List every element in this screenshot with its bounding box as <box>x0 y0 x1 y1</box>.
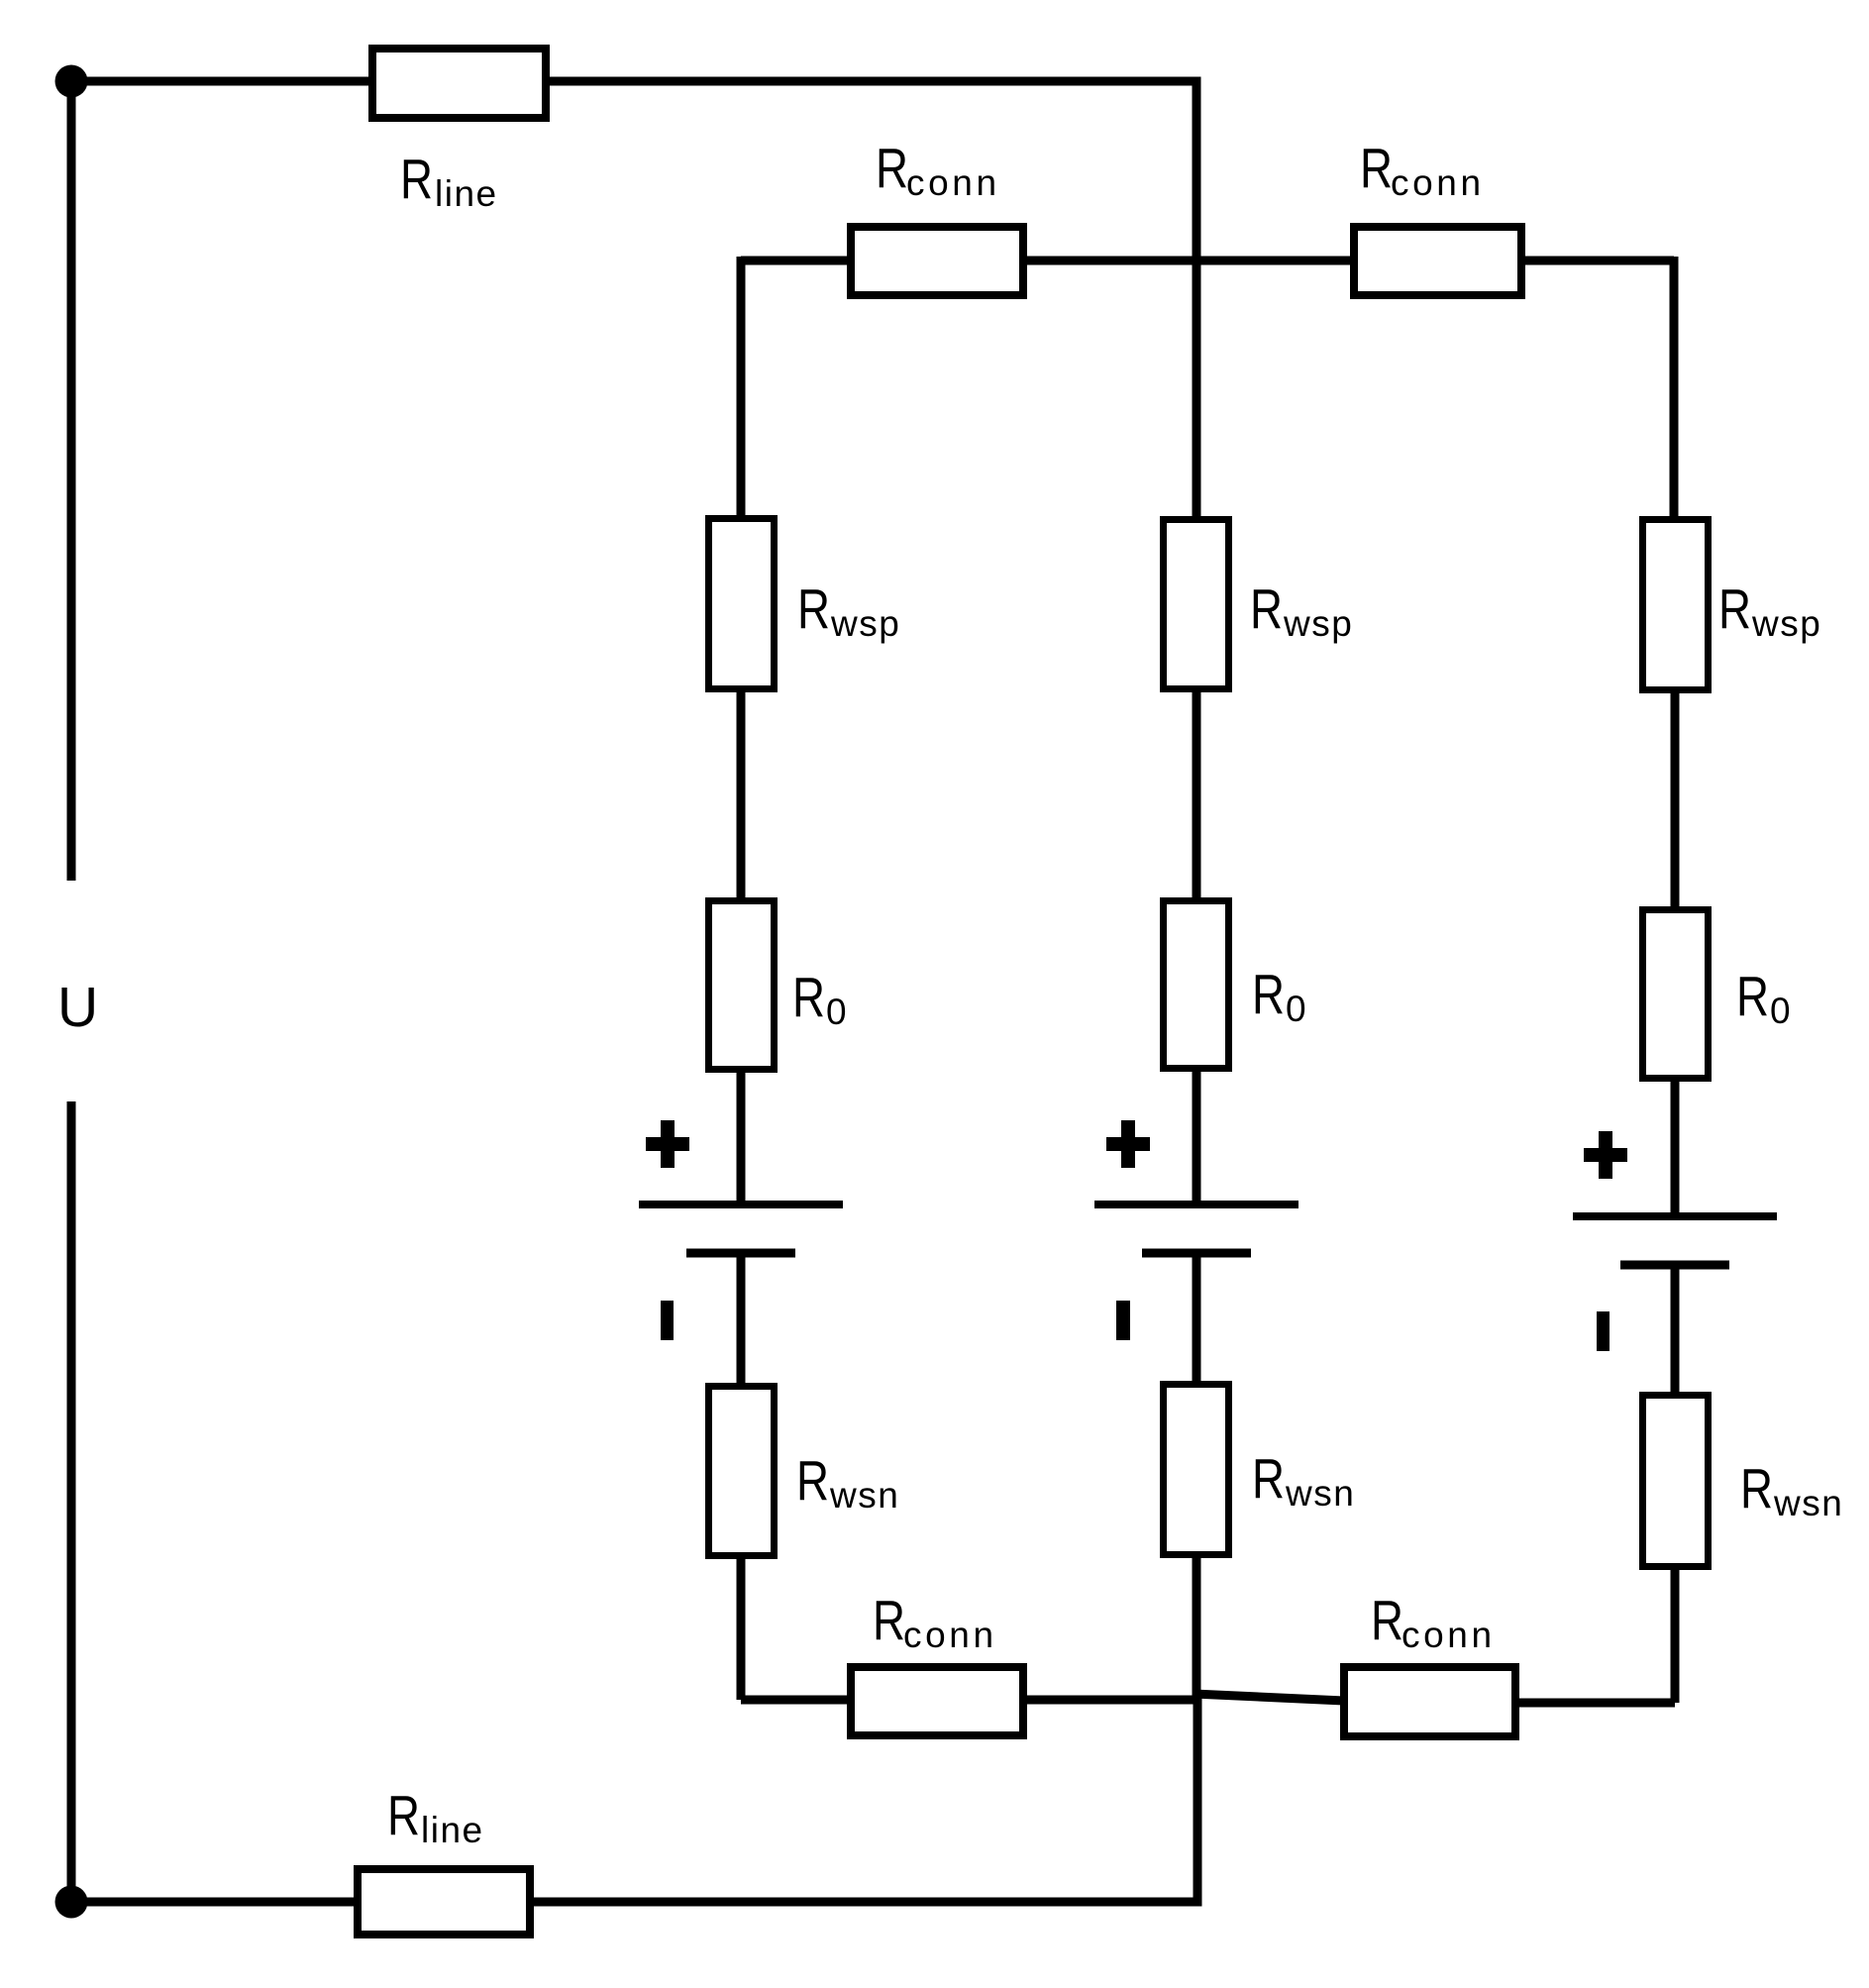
resistor Rline top <box>372 49 546 118</box>
svg-text:R: R <box>1736 965 1769 1028</box>
svg-text:conn: conn <box>906 162 1000 203</box>
node A top-left junction dot <box>55 65 88 98</box>
svg-text:wsp: wsp <box>830 603 900 644</box>
wire column 1 battery to Rwsn <box>737 1253 746 1387</box>
plus sign cell 2 <box>1106 1137 1150 1151</box>
svg-text:wsp: wsp <box>1751 603 1821 644</box>
wire top rail segment 1 <box>741 257 853 265</box>
resistor Rwsp column 2 <box>1164 520 1229 689</box>
wire left vertical lower segment <box>67 1101 76 1902</box>
svg-text:R: R <box>876 137 908 200</box>
svg-text:conn: conn <box>1391 162 1485 203</box>
svg-text:R: R <box>1252 1447 1285 1511</box>
wire bottom rail segment 1 <box>741 1696 853 1705</box>
svg-text:R: R <box>1250 577 1283 641</box>
svg-text:conn: conn <box>1402 1615 1496 1655</box>
wire top from Rline to middle column corner <box>550 81 1196 516</box>
battery cell 3 negative plate <box>1620 1261 1729 1270</box>
wire top from node A to Rline <box>67 77 368 86</box>
current label I cell 2 <box>1116 1301 1130 1340</box>
svg-text:R: R <box>1252 963 1285 1026</box>
wire bottom rail slanted segment <box>1194 1694 1344 1701</box>
resistor Rconn top-left <box>851 227 1023 295</box>
node B bottom-left junction dot <box>55 1886 88 1919</box>
svg-text:R: R <box>1371 1589 1403 1652</box>
svg-text:0: 0 <box>1770 991 1791 1031</box>
wire column 3 Rwsn to bottom rail <box>1671 1566 1680 1703</box>
resistor Rconn top-right <box>1354 227 1521 295</box>
svg-text:R: R <box>1718 577 1751 641</box>
svg-text:0: 0 <box>826 992 847 1032</box>
battery cell 3 positive plate <box>1573 1212 1777 1220</box>
svg-text:U: U <box>57 976 98 1039</box>
svg-text:R: R <box>792 966 825 1029</box>
plus sign cell 1 <box>646 1137 689 1151</box>
wire bottom from Rline to middle column corner <box>534 1696 1197 1902</box>
resistor R0 column 3 <box>1643 910 1709 1079</box>
wire column 2 R0 to battery <box>1193 1069 1201 1204</box>
wire column 1 Rwsp to R0 <box>737 689 746 904</box>
wire bottom rail segment 3 <box>1515 1699 1675 1708</box>
battery cell 2 negative plate <box>1142 1249 1251 1258</box>
svg-text:wsn: wsn <box>829 1475 899 1516</box>
battery cell 1 positive plate <box>639 1201 843 1208</box>
wire column 3 top <box>1670 257 1679 519</box>
wire bottom rail segment 2 <box>1023 1696 1197 1705</box>
resistor Rwsn column 1 <box>709 1387 775 1556</box>
svg-text:wsn: wsn <box>1285 1473 1355 1514</box>
resistor R0 column 1 <box>709 901 775 1070</box>
wire column 2 battery to Rwsn <box>1193 1253 1201 1385</box>
wire column 3 Rwsp to R0 <box>1671 690 1680 913</box>
wire column 1 top <box>737 257 746 518</box>
svg-text:line: line <box>435 173 498 214</box>
svg-text:line: line <box>421 1810 484 1850</box>
battery cell 1 negative plate <box>686 1249 795 1258</box>
svg-text:R: R <box>1360 137 1393 200</box>
wire column 3 R0 to battery <box>1671 1079 1680 1216</box>
current label I cell 3 <box>1597 1311 1609 1351</box>
resistor Rline bottom <box>358 1869 530 1935</box>
wire bottom from node B to Rline <box>67 1898 354 1907</box>
wire top rail segment 3 <box>1521 257 1674 265</box>
svg-text:R: R <box>796 1449 829 1513</box>
resistor Rwsp column 1 <box>709 519 775 689</box>
resistor Rwsp column 3 <box>1643 520 1709 690</box>
plus sign cell 3 <box>1584 1148 1627 1162</box>
wire column 1 Rwsn to bottom rail <box>737 1555 746 1700</box>
resistor Rwsn column 3 <box>1643 1396 1709 1567</box>
svg-text:R: R <box>400 148 433 211</box>
wire column 2 Rwsn to bottom rail <box>1193 1554 1201 1700</box>
svg-text:R: R <box>797 577 830 641</box>
resistor R0 column 2 <box>1164 901 1229 1069</box>
wire column 1 R0 to battery <box>737 1070 746 1204</box>
wire left vertical upper segment <box>67 81 76 881</box>
resistor Rconn bottom-left <box>851 1667 1023 1735</box>
wire column 2 Rwsp to R0 <box>1193 689 1201 904</box>
svg-text:R: R <box>1740 1457 1773 1520</box>
svg-text:0: 0 <box>1286 989 1306 1029</box>
svg-text:R: R <box>873 1589 905 1652</box>
wire top rail segment 2 <box>1023 257 1354 265</box>
resistor Rconn bottom-right <box>1344 1667 1515 1736</box>
current label I cell 1 <box>661 1301 674 1340</box>
battery cell 2 positive plate <box>1094 1201 1298 1208</box>
wire column 3 battery to Rwsn <box>1671 1265 1680 1396</box>
svg-text:wsn: wsn <box>1773 1483 1843 1523</box>
svg-text:R: R <box>387 1784 420 1847</box>
svg-text:conn: conn <box>903 1615 997 1655</box>
svg-text:wsp: wsp <box>1283 603 1353 644</box>
resistor Rwsn column 2 <box>1164 1385 1229 1555</box>
